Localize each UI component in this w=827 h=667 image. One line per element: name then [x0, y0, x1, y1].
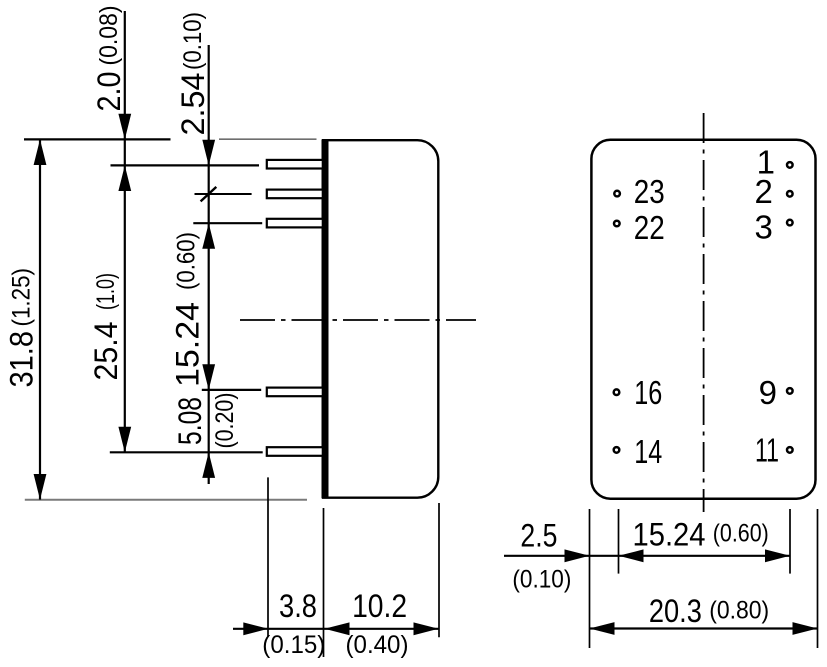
pin dot 3	[787, 220, 793, 226]
svg-text:(0.08): (0.08)	[95, 6, 123, 66]
package pin-side thick bar	[322, 139, 329, 498]
svg-text:9: 9	[759, 374, 777, 411]
arrow right 15.24	[765, 549, 790, 562]
pin dot 23	[614, 191, 620, 197]
arrow up 31.8 top	[34, 139, 47, 165]
svg-text:(0.10): (0.10)	[512, 566, 571, 594]
label 25.4	[88, 322, 124, 381]
vertical centerline (bottom view)	[703, 113, 705, 512]
pin row4 (side)	[267, 388, 323, 397]
label (0.10)	[179, 12, 207, 70]
svg-text:2.54: 2.54	[175, 73, 211, 136]
svg-text:23: 23	[634, 173, 665, 210]
pin dot 1	[787, 162, 793, 168]
bottom view group	[504, 113, 818, 648]
svg-text:2.0: 2.0	[91, 72, 127, 112]
seating plane baseline (grey)	[25, 499, 307, 501]
dimension line 31.8	[39, 139, 41, 499]
svg-text:14: 14	[634, 433, 662, 470]
oblique tick at row2	[201, 187, 217, 202]
label (0.60) side	[173, 232, 201, 290]
pin row3 (side)	[267, 219, 323, 228]
arrow right 20.3	[793, 622, 818, 635]
dimension line 2.0 / 25.4	[124, 11, 126, 452]
arrow up 5.08 bottom	[202, 452, 215, 478]
svg-text:31.8: 31.8	[4, 331, 40, 388]
extension line left pin column	[618, 509, 620, 574]
arrow up 15.24 top	[202, 223, 215, 249]
label (0.20)	[211, 393, 239, 449]
svg-text:(0.10): (0.10)	[179, 12, 207, 70]
svg-text:(0.60): (0.60)	[173, 232, 201, 290]
pin dot 9	[787, 388, 793, 394]
svg-text:(1.0): (1.0)	[92, 273, 120, 310]
label (0.08)	[95, 6, 123, 66]
label 5.08	[172, 397, 208, 445]
svg-text:3: 3	[755, 209, 773, 246]
label 31.8	[4, 331, 40, 388]
label 2.54	[175, 73, 211, 136]
svg-text:10.2: 10.2	[352, 588, 407, 624]
dimension line 20.3	[590, 627, 818, 629]
arrow right 3.8	[243, 622, 268, 635]
arrow left 20.3	[590, 622, 615, 635]
pin dot 16	[614, 389, 620, 395]
svg-text:16: 16	[634, 374, 662, 411]
extension line below (package face, x=323.5)	[323, 508, 325, 657]
dimension line 2.5 / 15.24	[504, 555, 790, 557]
extension line pin row4	[202, 389, 261, 391]
pin row2 (side)	[267, 190, 323, 199]
svg-text:(0.60): (0.60)	[713, 520, 769, 548]
arrow down 31.8 bottom	[34, 474, 47, 500]
extension line top edge (grey to package)	[219, 138, 317, 140]
svg-text:5.08: 5.08	[172, 397, 208, 445]
side view group	[4, 6, 477, 660]
arrow down 15.24/5.08 shared	[202, 364, 215, 390]
extension line below (package back, x=439)	[438, 503, 440, 637]
extension line pkg left edge	[589, 509, 591, 648]
svg-text:15.24: 15.24	[633, 517, 706, 553]
pin dot 2	[787, 191, 793, 197]
extension line pin row5	[110, 451, 263, 453]
label (1.25)	[8, 268, 36, 327]
arrow left 10.2	[325, 622, 350, 635]
arrow right 2.5	[565, 549, 590, 562]
horizontal centerline (side view)	[240, 319, 476, 321]
dimension line 2.54 / 15.24 / 5.08	[208, 45, 210, 484]
svg-text:20.3: 20.3	[649, 593, 702, 629]
extension line pin row3	[193, 222, 262, 224]
svg-text:(0.15): (0.15)	[262, 631, 325, 659]
svg-text:25.4: 25.4	[88, 322, 124, 381]
label (1.0)	[92, 273, 120, 310]
svg-text:2.5: 2.5	[520, 518, 557, 554]
arrow down 2.0	[118, 114, 131, 140]
pin dot 14	[614, 447, 620, 453]
svg-text:15.24: 15.24	[170, 302, 206, 387]
svg-text:(1.25): (1.25)	[8, 268, 36, 327]
label 15.24 side	[170, 302, 206, 387]
extension line below (pin row5 left, x=268)	[267, 477, 269, 637]
arrow down 2.54	[202, 140, 215, 166]
pin dot 22	[614, 221, 620, 227]
svg-text:(0.40): (0.40)	[346, 631, 409, 659]
package outline (bottom view)	[591, 140, 815, 499]
extension line right pin column	[789, 509, 791, 574]
pin row5 (side)	[267, 447, 323, 456]
arrow left 15.24	[619, 549, 644, 562]
svg-text:3.8: 3.8	[279, 588, 317, 624]
pin row1 (side)	[267, 160, 323, 169]
svg-text:(0.20): (0.20)	[211, 393, 239, 449]
svg-text:2: 2	[755, 173, 773, 210]
extension line pin row2	[195, 193, 252, 195]
svg-text:11: 11	[755, 432, 779, 469]
arrow right 10.2	[414, 622, 439, 635]
bottom dimension line 3.8 / 10.2	[233, 628, 439, 630]
extension line pkg right edge	[817, 509, 819, 648]
svg-text:(0.80): (0.80)	[709, 597, 769, 625]
arrow down 25.4 bottom	[118, 427, 131, 453]
arrow up 25.4 top	[118, 165, 131, 191]
package body (side view)	[323, 140, 438, 498]
pin dot 11	[787, 447, 793, 453]
extension line pin row1	[111, 164, 260, 166]
svg-text:22: 22	[634, 209, 665, 246]
extension line top edge (black)	[24, 138, 171, 140]
label 2.0	[91, 72, 127, 112]
